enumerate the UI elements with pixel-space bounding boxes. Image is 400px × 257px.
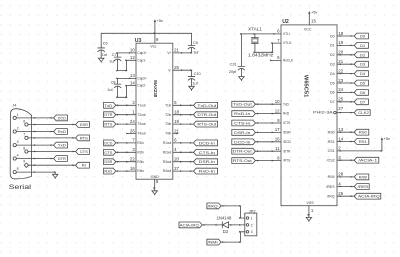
wire RTS-Out to U2 /RTS (255, 160, 281, 162)
svg-text:D1: D1 (330, 44, 335, 48)
net flag D0 (354, 33, 368, 39)
net flag DTR-Out (194, 112, 218, 118)
power +5v at U2 VCC (308, 10, 317, 25)
svg-text:20pf: 20pf (229, 70, 237, 74)
jumper JP2 pin 3 (246, 230, 252, 234)
wire DSR-In to U2 /DSR (255, 132, 281, 134)
net flag RS1 (354, 139, 369, 145)
capacitor C9 1uf (188, 41, 199, 54)
connector J4 pin 4 (13, 154, 19, 161)
wire J4 pin 4 to DTR (16, 158, 53, 160)
svg-text:/RES: /RES (358, 184, 369, 189)
svg-text:3: 3 (17, 140, 19, 144)
wire C7 bottom loop to U3 pin 12 Cap1- (116, 59, 136, 71)
net flag D7 (354, 99, 368, 105)
diode D2 1N4148 (217, 215, 232, 234)
wire U3 R2out to CTS-In (173, 151, 194, 153)
svg-text:CLK2: CLK2 (358, 110, 370, 115)
net flag RxD-In (232, 111, 256, 117)
wire U3 pin 21 V+ to C9 (173, 52, 193, 54)
svg-text:D4: D4 (330, 72, 335, 76)
svg-text:RS0: RS0 (359, 130, 368, 135)
svg-text:D3: D3 (360, 62, 366, 67)
capacitor C8 1uf (107, 78, 121, 92)
svg-text:TxD: TxD (58, 143, 66, 148)
wire U3 T2in to DTR-Out (173, 114, 194, 116)
svg-text:DCD: DCD (58, 115, 66, 120)
wire diode D2 to JP2 pin 2 (228, 224, 245, 226)
svg-text:1uf: 1uf (107, 88, 113, 92)
svg-text:16: 16 (130, 166, 135, 171)
svg-text:RxD: RxD (58, 129, 66, 134)
svg-text:R/W: R/W (359, 174, 367, 179)
wire J4 pin 8 to CTS (28, 151, 76, 153)
svg-text:/DSR: /DSR (283, 131, 291, 135)
wire RxD to U3 R4in (116, 170, 136, 172)
wire U2 D3 to bus flag (337, 63, 354, 65)
svg-text:/IRQ: /IRQ (327, 195, 335, 199)
svg-text:12: 12 (275, 108, 280, 113)
wire U3 R3out to DSR-In (173, 161, 194, 163)
connector J4 pin 1 (13, 113, 19, 120)
wire DCD to U3 R1in (116, 142, 136, 144)
net flag D4 (354, 71, 368, 77)
svg-text:/RTS: /RTS (283, 159, 290, 163)
svg-text:1: 1 (17, 113, 19, 117)
power +5v at U3 Vcc (154, 18, 163, 43)
IC U3 body (136, 43, 173, 179)
wire +5v rail above U3 (101, 32, 191, 34)
svg-text:T4out: T4out (137, 132, 145, 136)
net flag RxD-In (194, 168, 218, 174)
svg-text:TxD-Out: TxD-Out (233, 102, 253, 107)
svg-text:5: 5 (17, 167, 19, 171)
svg-text:5: 5 (174, 100, 177, 105)
svg-text:19: 19 (338, 40, 343, 45)
jumper JP2 pin 1 (246, 216, 252, 220)
svg-text:VSS: VSS (307, 201, 315, 205)
svg-text:12: 12 (130, 55, 135, 60)
wire RxD-In to U2 RxD (255, 113, 281, 115)
svg-text:1uf: 1uf (102, 53, 108, 57)
connector J4 pin 8 (23, 146, 28, 153)
net flag ACIA-IRQ (179, 222, 202, 228)
net flag DTR-Out (232, 148, 256, 154)
svg-text:Cap1-: Cap1- (137, 58, 146, 62)
svg-text:VCC: VCC (304, 27, 312, 31)
svg-text:1: 1 (132, 110, 135, 115)
svg-text:D0: D0 (360, 34, 366, 39)
net flag DSR-In (194, 159, 218, 165)
svg-text:9: 9 (23, 160, 25, 164)
svg-text:TxD: TxD (283, 102, 290, 106)
svg-text:1.8432MHz: 1.8432MHz (248, 53, 273, 58)
svg-text:13: 13 (130, 73, 135, 78)
svg-text:6: 6 (174, 138, 177, 143)
svg-text:C8: C8 (111, 81, 116, 85)
svg-text:R1in: R1in (137, 141, 144, 145)
svg-text:RS1: RS1 (359, 139, 368, 144)
svg-text:1: 1 (251, 216, 253, 220)
svg-text:22: 22 (130, 157, 135, 162)
svg-text:4: 4 (17, 154, 19, 158)
svg-text:DTR-Out: DTR-Out (197, 112, 217, 117)
svg-text:XTAL1: XTAL1 (248, 27, 263, 32)
wire stub U3 T4out (126, 133, 136, 135)
IC U2 body (281, 25, 337, 206)
net flag RxD (104, 168, 116, 174)
svg-text:26: 26 (130, 128, 135, 133)
svg-text:/DCD: /DCD (283, 140, 291, 144)
wire U2 /CS2 to /ACIA-1 (337, 159, 354, 161)
net flag CTS-In (194, 149, 218, 155)
ground below U3 (152, 191, 158, 195)
ground below C10 (189, 79, 195, 90)
jumper JP2 body (245, 213, 257, 236)
svg-text:RTS: RTS (104, 122, 112, 127)
svg-text:2: 2 (17, 127, 19, 131)
svg-text:/RES: /RES (326, 185, 335, 189)
wire J4 pin 5 to ground (16, 171, 56, 173)
wire U3 pin 10 Cap1+ (116, 52, 136, 54)
svg-text:DCD-In: DCD-In (199, 140, 215, 145)
svg-text:T1out: T1out (137, 103, 145, 107)
svg-text:V-: V- (168, 68, 171, 72)
svg-text:CS1: CS1 (328, 149, 335, 153)
svg-text:13: 13 (338, 127, 343, 132)
connector J4 pin 5 (13, 167, 19, 174)
svg-text:11: 11 (275, 146, 280, 151)
net flag RTS (76, 135, 90, 141)
svg-text:1uf: 1uf (109, 59, 115, 63)
svg-text:8: 8 (23, 146, 25, 150)
svg-text:D7: D7 (330, 100, 335, 104)
svg-text:18: 18 (174, 110, 179, 115)
net flag DTR (104, 112, 116, 118)
svg-text:T2in: T2in (165, 113, 171, 117)
svg-text:RxD-In: RxD-In (234, 111, 250, 116)
svg-text:+5v: +5v (157, 18, 163, 23)
net flag CLK2 (354, 110, 370, 116)
ground below U2 (306, 217, 312, 221)
svg-text:28: 28 (338, 172, 343, 177)
wire U3 R4out to RxD-In (173, 170, 194, 172)
svg-text:/CTS: /CTS (283, 121, 290, 125)
svg-text:/ACIA-1: /ACIA-1 (358, 158, 378, 163)
svg-text:6: 6 (277, 29, 280, 34)
svg-text:14: 14 (130, 80, 135, 85)
net flag D2 (354, 52, 368, 58)
svg-text:25: 25 (338, 97, 343, 102)
svg-text:U2: U2 (282, 19, 289, 25)
svg-text:CTS: CTS (104, 150, 112, 155)
svg-text:21: 21 (338, 59, 343, 64)
svg-text:2: 2 (132, 100, 135, 105)
svg-text:RxCLK: RxCLK (283, 59, 294, 63)
svg-text:26: 26 (338, 191, 343, 196)
svg-text:15: 15 (311, 18, 316, 23)
svg-text:ACIA-IRQ: ACIA-IRQ (358, 194, 380, 199)
svg-text:Cap1+: Cap1+ (137, 51, 147, 55)
svg-text:T3in: T3in (165, 122, 171, 126)
wire DSR to U3 R3in (116, 161, 136, 163)
net flag TxD-Out (232, 101, 256, 107)
wire U3 T3in to RTS-Out (173, 123, 194, 125)
svg-text:RxD: RxD (283, 112, 290, 116)
net flag RTS-Out (232, 158, 256, 164)
connector J4 pin 3 (13, 140, 19, 147)
svg-text:27: 27 (174, 166, 179, 171)
svg-text:D1: D1 (360, 43, 366, 48)
svg-text:R2out: R2out (163, 150, 172, 154)
wire +5v rail down to C9 (191, 33, 193, 44)
svg-text:D5: D5 (360, 81, 366, 86)
net flag DSR-In (232, 130, 256, 136)
svg-text:8: 8 (156, 179, 159, 184)
wire U3 pin 13 Cap2+ (116, 78, 136, 80)
svg-text:10: 10 (130, 48, 135, 53)
svg-text:D0: D0 (330, 34, 335, 38)
svg-text:T4in: T4in (165, 132, 171, 136)
svg-text:Cap2+: Cap2+ (137, 77, 147, 81)
wire XTAL1 bottom to U2 XTLO pin 7 (254, 42, 281, 53)
wire U2 D2 to bus flag (337, 54, 354, 56)
svg-text:RxD-In: RxD-In (199, 169, 215, 174)
wire J4 pin 9 to RI (28, 164, 76, 166)
svg-text:R4out: R4out (163, 169, 172, 173)
net flag DSR (76, 122, 90, 128)
net flag D5 (354, 80, 368, 86)
svg-text:/DTR: /DTR (283, 149, 291, 153)
net flag /ACIA-1 (354, 157, 379, 163)
svg-text:14: 14 (338, 136, 343, 141)
net flag RTS-Out (194, 121, 218, 127)
svg-text:D7: D7 (360, 99, 366, 104)
wire U3 pin 25 V- to C10 (173, 69, 193, 71)
svg-text:+5v: +5v (311, 10, 317, 15)
svg-text:R1out: R1out (163, 141, 172, 145)
wire J4 pin 3 to TxD (16, 144, 53, 146)
wire CTS to U3 R2in (116, 151, 136, 153)
wire U2 D6 to bus flag (337, 92, 354, 94)
svg-text:T2out: T2out (137, 113, 145, 117)
wire XTAL1 to U2 XTLI pin 6 (240, 33, 281, 35)
wire U2 RS0 to RS0 (337, 131, 354, 133)
net flag RS0 (354, 129, 369, 135)
svg-text:9: 9 (156, 37, 159, 42)
capacitor C7 1uf (109, 53, 121, 63)
capacitor C10 1uf (188, 70, 200, 85)
wire U2 D5 to bus flag (337, 82, 354, 84)
svg-text:RS1: RS1 (328, 140, 335, 144)
svg-text:CTS: CTS (80, 149, 88, 154)
svg-text:19: 19 (174, 119, 179, 124)
svg-text:W65C51: W65C51 (303, 75, 309, 98)
svg-text:2: 2 (251, 223, 253, 227)
power +5v at U2 CS1 (381, 136, 390, 141)
wire J4 pin 1 to DCD (16, 117, 53, 119)
svg-text:RTS-Out: RTS-Out (233, 158, 253, 163)
svg-text:ACIA-IRQ: ACIA-IRQ (180, 222, 199, 227)
wire U2 D1 to bus flag (337, 45, 354, 47)
svg-text:CTS-In: CTS-In (199, 150, 215, 155)
capacitor C31 20pf (229, 63, 245, 75)
svg-text:DSR-In: DSR-In (234, 130, 250, 135)
svg-text:R2in: R2in (137, 150, 144, 154)
svg-text:4: 4 (174, 147, 177, 152)
svg-text:RTS: RTS (80, 135, 88, 140)
svg-text:RI: RI (82, 163, 86, 168)
wire /NMI to JP2 pin 3 (221, 231, 245, 243)
wire J4 pin 7 to RTS (28, 137, 76, 139)
ground below C31 (239, 69, 245, 81)
net flag DCD (104, 140, 116, 146)
svg-text:6: 6 (23, 119, 25, 123)
svg-text:C9: C9 (193, 41, 198, 45)
wire U2 VSS pin 1 down (308, 206, 311, 218)
net flag ACIA-IRQ (354, 193, 381, 199)
wire J4 pin 2 to RxD (16, 131, 53, 133)
wire DTR-Out to U2 /DTR (255, 150, 281, 152)
svg-text:17: 17 (275, 127, 280, 132)
wire U2 RS1 to RS1 (337, 141, 354, 143)
net flag RI (76, 162, 90, 168)
net flag CTS-In (232, 120, 256, 126)
svg-text:RxD: RxD (104, 169, 112, 174)
svg-text:DCD: DCD (104, 140, 112, 145)
svg-text:8: 8 (277, 155, 280, 160)
svg-text:D3: D3 (330, 63, 335, 67)
wire /IRQ to JP2 pin 1 (221, 205, 245, 219)
wire DCD-In to U2 /DCD (255, 141, 281, 143)
wire U3 T1in to TxD-Out (173, 104, 194, 106)
svg-text:D4: D4 (360, 71, 366, 76)
connector J4 pin 7 (23, 133, 28, 140)
svg-text:DTR: DTR (58, 156, 66, 161)
wire stub U3 T4in (173, 133, 179, 135)
svg-text:C31: C31 (230, 63, 237, 67)
wire U2 /IRQ to ACIA-IRQ (337, 195, 354, 197)
svg-text:DSR-In: DSR-In (199, 159, 215, 164)
capacitor C6 1uf (98, 41, 108, 57)
net flag R/W (354, 174, 369, 180)
svg-text:TxD: TxD (104, 103, 112, 108)
wire +5v rail down to C6 (100, 33, 102, 46)
svg-text:3: 3 (338, 155, 341, 160)
svg-text:C7: C7 (112, 53, 117, 57)
jumper JP2 pin 2 (246, 223, 252, 227)
svg-text:23: 23 (338, 78, 343, 83)
svg-text:T3out: T3out (137, 122, 145, 126)
net flag /NMI (207, 239, 221, 245)
wire U3 R1out to DCD-In (173, 142, 194, 144)
net flag RxD (54, 129, 68, 135)
svg-text:7: 7 (23, 133, 25, 137)
wire crystal node down to C31 (240, 34, 242, 66)
wire U3 GND pin 8 down (153, 179, 156, 190)
svg-text:24: 24 (130, 119, 135, 124)
wire U2 D4 to bus flag (337, 73, 354, 75)
IC U2 PHI2 pin bubble (334, 111, 337, 114)
svg-text:20: 20 (174, 157, 179, 162)
svg-text:7: 7 (132, 138, 135, 143)
svg-text:D2: D2 (330, 53, 335, 57)
svg-text:RTS-Out: RTS-Out (197, 122, 217, 127)
connector J4 pin 6 (23, 119, 28, 126)
svg-text:MAX238: MAX238 (152, 80, 158, 97)
connector J4 shell (10, 109, 31, 179)
wire U2 D0 to bus flag (337, 35, 354, 37)
svg-text:R3out: R3out (163, 160, 172, 164)
svg-text:DTR-Out: DTR-Out (233, 149, 253, 154)
svg-text:25: 25 (174, 65, 179, 70)
svg-text:D2: D2 (223, 229, 229, 234)
svg-text:/CS2: /CS2 (327, 159, 335, 163)
svg-text:22: 22 (338, 68, 343, 73)
svg-text:20: 20 (338, 50, 343, 55)
svg-text:16: 16 (275, 137, 280, 142)
svg-text:18: 18 (338, 31, 343, 36)
svg-text:Cap2-: Cap2- (137, 84, 146, 88)
net flag D3 (354, 61, 368, 67)
svg-text:3: 3 (251, 230, 253, 234)
wire TxD to U3 T1out (116, 104, 136, 106)
svg-text:24: 24 (338, 87, 343, 92)
wire U2 D7 to bus flag (337, 101, 354, 103)
svg-text:5: 5 (277, 55, 280, 60)
svg-text:1: 1 (311, 208, 314, 213)
svg-text:D6: D6 (330, 91, 335, 95)
svg-text:Serial: Serial (9, 184, 32, 191)
wire U2 /RES to /RES (337, 186, 354, 188)
net flag TxD (104, 102, 116, 108)
wire U2 CS1 to +5v (337, 141, 383, 152)
svg-text:21: 21 (174, 48, 179, 53)
wire U2 R/W to R/W (337, 176, 354, 178)
wire RTS to U3 T3out (116, 123, 136, 125)
net flag DCD-In (194, 140, 218, 146)
net flag CTS (104, 149, 116, 155)
net flag DCD (54, 115, 68, 121)
svg-text:RS0: RS0 (328, 131, 335, 135)
svg-text:DCD-In: DCD-In (234, 139, 250, 144)
net flag /RES (354, 184, 369, 190)
svg-text:R4in: R4in (137, 169, 144, 173)
svg-text:D6: D6 (360, 90, 366, 95)
svg-text:TxD-Out: TxD-Out (197, 103, 217, 108)
net flag /IRQ (207, 203, 221, 209)
svg-text:10: 10 (275, 99, 280, 104)
connector J4 pin 9 (23, 160, 28, 168)
wire TxD-Out to U2 TxD (255, 103, 281, 105)
svg-text:7: 7 (277, 38, 280, 43)
svg-text:C10: C10 (194, 72, 201, 76)
svg-text:XTLI: XTLI (283, 32, 290, 36)
ground below C6 (98, 51, 104, 63)
svg-text:XTLO: XTLO (283, 41, 292, 45)
svg-text:C6: C6 (103, 41, 108, 45)
svg-text:J4: J4 (12, 102, 17, 107)
net flag DSR (104, 159, 116, 165)
svg-text:/NMI: /NMI (208, 240, 218, 245)
crystal XTAL1 (251, 34, 258, 45)
wire J4 pin 6 to DSR (28, 124, 76, 126)
net flag TxD-Out (194, 102, 218, 108)
svg-text:4: 4 (338, 181, 341, 186)
wire U2 PHI2 to CLK2 (337, 112, 354, 114)
net flag RTS (104, 121, 116, 127)
svg-text:1uf: 1uf (193, 50, 199, 54)
